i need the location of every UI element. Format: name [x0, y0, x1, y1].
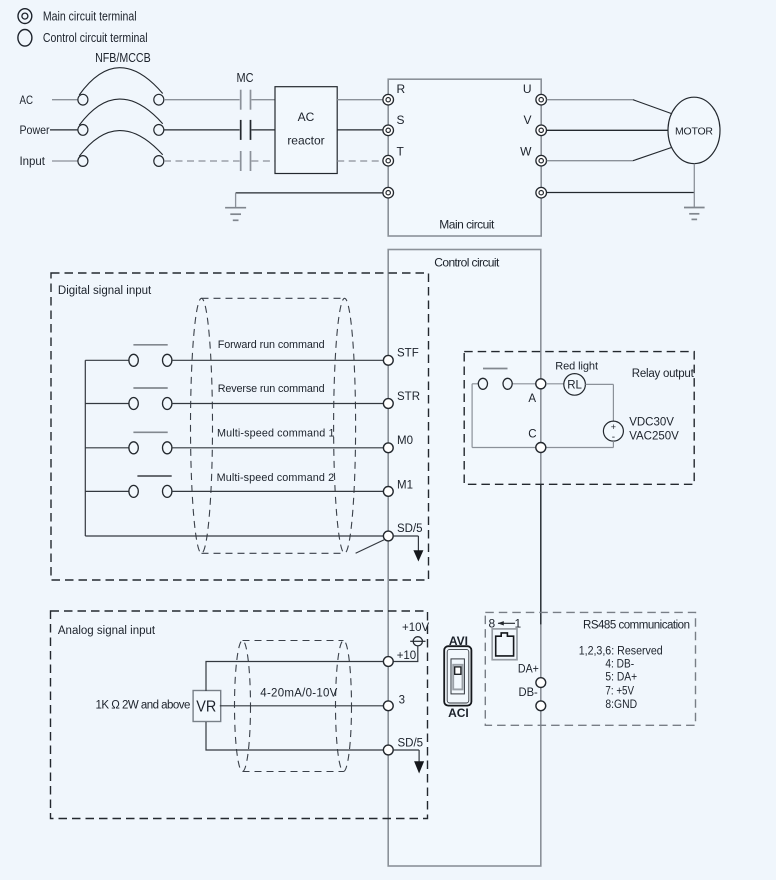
terminal STF: [383, 348, 418, 366]
ground (input side): [225, 193, 246, 220]
svg-text:NFB/MCCB: NFB/MCCB: [95, 51, 151, 65]
svg-text:RL: RL: [567, 380, 582, 392]
contactor MC pole 3: [241, 151, 251, 171]
terminal T: [383, 145, 405, 166]
legend main circuit terminal symbol: [18, 9, 32, 24]
terminal DA+: [536, 678, 546, 688]
wire VR wiper to 3: [220, 705, 384, 707]
legend control circuit terminal symbol: [18, 30, 32, 47]
shield cable (digital) top edge: [202, 297, 345, 299]
relay switch contacts: [478, 369, 512, 390]
wire W to motor: [547, 147, 674, 161]
svg-text:DA+: DA+: [518, 663, 539, 675]
digital common bus wire: [84, 360, 86, 536]
svg-text:VAC250V: VAC250V: [629, 431, 679, 443]
terminal 3: [383, 695, 405, 711]
wire AC phase lead-in: [52, 99, 78, 101]
svg-text:Power: Power: [20, 123, 50, 137]
svg-text:Reverse run command: Reverse run command: [218, 383, 325, 395]
svg-text:8:GND: 8:GND: [605, 699, 637, 711]
svg-text:reactor: reactor: [287, 134, 324, 148]
shield cable (analog) top edge: [243, 640, 344, 642]
svg-text:Control circuit: Control circuit: [434, 255, 500, 269]
wire breaker to MC pole 2: [164, 129, 240, 131]
svg-text:STR: STR: [397, 391, 420, 403]
contactor MC pole 2: [241, 120, 251, 140]
wire Input phase lead-in: [52, 160, 78, 162]
svg-text:Digital signal input: Digital signal input: [58, 285, 152, 297]
svg-text:3: 3: [399, 695, 405, 707]
svg-text:Main circuit: Main circuit: [439, 217, 495, 231]
svg-text:Control circuit terminal: Control circuit terminal: [43, 30, 148, 45]
svg-text:M1: M1: [397, 480, 413, 492]
svg-text:A: A: [528, 393, 536, 405]
terminal R: [383, 82, 406, 105]
label 8-1 pin order: [489, 617, 522, 631]
svg-text:S: S: [397, 113, 405, 127]
wire relay switch loop: [472, 384, 536, 448]
shield cable (digital) bottom edge: [202, 552, 345, 554]
svg-text:Relay output: Relay output: [632, 368, 695, 380]
ground (motor side): [684, 208, 705, 220]
terminal SD/5 (digital): [383, 523, 422, 541]
svg-text:Input: Input: [20, 154, 46, 168]
switch STR: [85, 388, 383, 410]
wire U to motor: [547, 100, 674, 115]
main circuit block: [388, 79, 541, 236]
wire RL to source: [585, 384, 613, 421]
svg-text:T: T: [397, 145, 405, 159]
shield ground arrow (analog): [393, 750, 424, 774]
relay output box: [464, 352, 694, 485]
svg-text:DB-: DB-: [519, 687, 538, 699]
wire breaker to MC pole 1: [164, 99, 240, 101]
svg-text:U: U: [523, 82, 532, 96]
svg-text:MOTOR: MOTOR: [675, 125, 713, 137]
breaker NFB/MCCB pole 3: [78, 131, 164, 167]
svg-text:W: W: [520, 145, 532, 159]
wire Power phase lead-in: [50, 129, 78, 131]
terminal A: [528, 379, 545, 405]
svg-text:Forward run command: Forward run command: [218, 339, 325, 351]
wire V to motor: [547, 129, 668, 131]
svg-text:AC: AC: [298, 110, 315, 124]
svg-text:MC: MC: [237, 71, 254, 85]
wire digital common to SD/5: [85, 535, 383, 537]
wire breaker to MC pole 3 (dashed): [164, 160, 240, 162]
terminal U: [523, 82, 547, 105]
svg-text:4: DB-: 4: DB-: [605, 659, 634, 671]
terminal W: [520, 145, 546, 166]
terminal SD/5 (analog): [383, 738, 423, 755]
label pin assignments: [579, 646, 663, 712]
wire VR top to +10: [206, 662, 383, 692]
svg-text:C: C: [528, 429, 536, 441]
switch M0: [85, 432, 383, 454]
shield cable (analog) left ellipse: [235, 641, 251, 772]
svg-text:V: V: [523, 113, 531, 127]
terminal C: [528, 429, 546, 453]
svg-text:Main circuit terminal: Main circuit terminal: [43, 9, 137, 24]
terminal STR: [383, 391, 420, 409]
breaker NFB/MCCB pole 2: [78, 99, 164, 135]
wire MC to reactor pole 2: [251, 129, 275, 131]
contactor MC pole 1: [241, 90, 251, 110]
svg-text:Multi-speed command 2: Multi-speed command 2: [217, 472, 335, 484]
svg-text:SD/5: SD/5: [398, 738, 424, 750]
switch STF: [85, 345, 383, 367]
wire input ground to terminal: [236, 192, 383, 194]
svg-text:VDC30V: VDC30V: [629, 417, 674, 429]
terminal M1: [383, 480, 413, 497]
source VDC30V/VAC250V: [603, 421, 623, 443]
RJ45 connector icon: [492, 629, 517, 660]
wire shield drain diagonal: [356, 540, 385, 554]
terminal +10: [383, 650, 416, 667]
terminal M0: [383, 435, 413, 453]
wire source to C: [472, 441, 613, 447]
shield cable (analog) bottom edge: [243, 771, 344, 773]
analog signal input box: [51, 611, 428, 819]
shield cable (analog) right ellipse: [336, 641, 352, 772]
terminal DB-: [536, 701, 546, 711]
terminal output ground: [536, 187, 547, 198]
svg-text:SD/5: SD/5: [397, 523, 423, 535]
wire motor to ground: [693, 164, 695, 208]
RS485 communication box: [485, 612, 695, 725]
svg-text:R: R: [397, 82, 406, 96]
svg-text:1K Ω 2W and above: 1K Ω 2W and above: [96, 700, 191, 712]
shield ground arrow (digital): [393, 536, 423, 562]
svg-text:AC: AC: [20, 93, 34, 107]
svg-text:+10V: +10V: [402, 622, 430, 634]
wire MC to reactor pole 3 (dashed): [251, 160, 275, 162]
potentiometer VR: [193, 691, 221, 722]
svg-text:Multi-speed command 1: Multi-speed command 1: [217, 427, 335, 439]
wire output ground run: [547, 192, 695, 194]
svg-text:ACI: ACI: [448, 706, 469, 720]
switch M1: [85, 476, 383, 497]
control circuit block: [388, 250, 541, 867]
svg-text:VR: VR: [196, 699, 216, 716]
terminal V: [523, 113, 546, 136]
breaker NFB/MCCB pole 1: [78, 68, 164, 105]
svg-text:M0: M0: [397, 435, 413, 447]
wire VR bottom to SD/5: [206, 722, 383, 750]
wire MC to reactor pole 1: [251, 99, 275, 101]
wire reactor to T (dashed): [337, 160, 383, 162]
svg-text:+10: +10: [397, 650, 417, 662]
terminal S: [383, 113, 405, 136]
node +10V external: [393, 622, 429, 662]
svg-text:4-20mA/0-10V: 4-20mA/0-10V: [260, 687, 337, 699]
AC reactor: [275, 87, 337, 174]
shield cable (digital) right ellipse: [334, 298, 356, 553]
wire reactor to R: [337, 99, 383, 101]
indicator RL (red light): [546, 374, 585, 396]
svg-text:RS485 communication: RS485 communication: [583, 620, 690, 632]
svg-text:1,2,3,6: Reserved: 1,2,3,6: Reserved: [579, 646, 663, 658]
svg-text:STF: STF: [397, 348, 419, 360]
wire relay-to-RS485 black segment on right edge: [540, 484, 542, 624]
terminal input ground: [383, 187, 394, 198]
svg-text:7: +5V: 7: +5V: [605, 686, 634, 698]
svg-text:Analog signal input: Analog signal input: [58, 625, 156, 637]
svg-text:+: +: [611, 422, 616, 432]
motor M1: [668, 97, 720, 163]
svg-text:Red light: Red light: [555, 360, 598, 372]
svg-text:5: DA+: 5: DA+: [605, 672, 637, 684]
wire reactor to S: [337, 129, 383, 131]
digital signal input box: [51, 273, 429, 580]
shield cable (digital) left ellipse: [191, 298, 213, 553]
switch AVI/ACI: [444, 646, 471, 705]
